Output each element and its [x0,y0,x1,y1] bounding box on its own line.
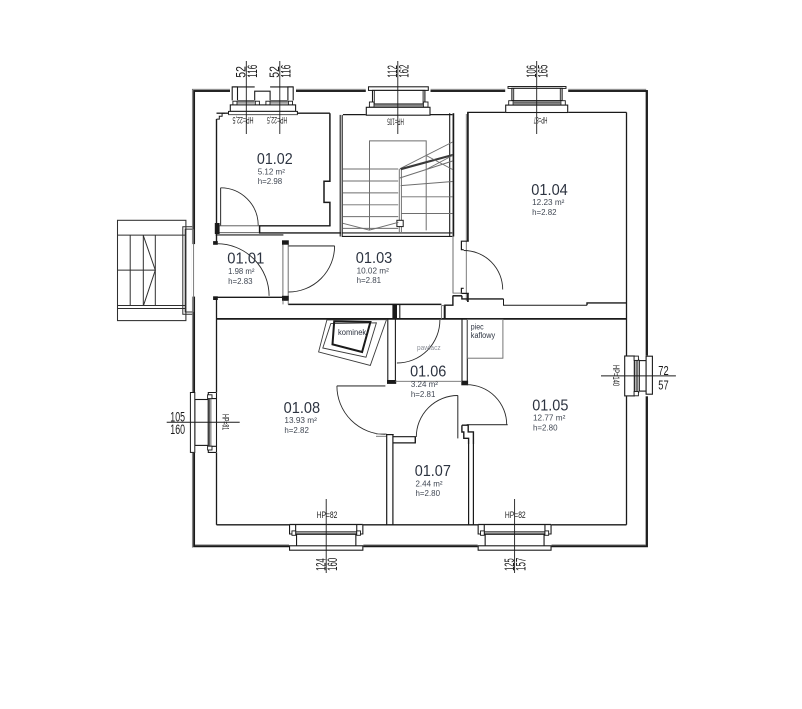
svg-text:01.08: 01.08 [284,400,321,417]
svg-text:160: 160 [325,558,340,571]
svg-text:HP=22,5: HP=22,5 [267,115,287,125]
svg-text:HP=82: HP=82 [317,510,338,520]
wall jamb slot right of 01.06 door [440,306,442,319]
svg-text:116: 116 [245,65,260,78]
svg-text:01.04: 01.04 [531,182,568,199]
door entry frame slot [193,229,195,312]
svg-text:01.02: 01.02 [257,151,293,168]
window W6 105/160 left wall [190,392,217,453]
wall 01.07 east top jamb [462,425,474,444]
svg-text:13.93 m²: 13.93 m² [284,416,317,425]
dimension 112/162 window2 [397,61,399,134]
wall jamb caps entry door [214,242,218,245]
svg-text:h=2.98: h=2.98 [258,177,283,186]
door D-01.05 swing [467,385,507,425]
wall bottom inner face [217,524,290,526]
wall stairwell right [449,113,451,236]
wall partition stubs below 01.01/01.03 door [282,300,284,304]
door D-01.05 leaf [467,424,508,426]
wall stairwell south [342,232,453,234]
svg-text:12.77 m²: 12.77 m² [533,414,566,423]
wall 01.04 west [467,112,469,241]
svg-text:pawlacz: pawlacz [417,343,441,352]
door D-01.07 swing [416,396,458,438]
wire outer thin contour [192,89,646,547]
wall chimney block between 01.02 and stairwell [324,113,330,226]
stair winder treads [400,142,453,169]
stair treads right flight [401,196,452,198]
svg-text:h=2.82: h=2.82 [284,426,309,435]
svg-text:01.06: 01.06 [410,364,446,381]
svg-text:h=2.80: h=2.80 [533,423,558,432]
wall 01.03 east partition [452,237,454,294]
door D-01.08 swing [337,386,386,435]
wall right inner face [626,112,628,356]
wall corner chamfer 01.02 top-left [217,113,225,119]
stair newel rail [398,169,400,232]
door D-01.01 swing [217,244,269,296]
door D-01.08 leaf [337,385,386,387]
svg-text:kaflowy: kaflowy [471,331,495,340]
door D-01.03 swing [289,246,335,292]
pawlacz south edge [395,380,462,382]
svg-text:h=2.81: h=2.81 [411,390,436,399]
svg-text:3.24 m²: 3.24 m² [411,380,438,389]
external stair [118,220,186,320]
svg-text:01.05: 01.05 [532,397,568,414]
svg-text:165: 165 [536,65,551,78]
svg-text:5.12 m²: 5.12 m² [258,167,285,176]
kominek middle [323,323,377,357]
kominek firebox [333,321,371,352]
door D-01.03 leaf [289,245,335,247]
svg-text:162: 162 [397,65,412,78]
wall jamb caps 01.01/01.03 door [282,241,288,245]
svg-text:01.01: 01.01 [227,251,264,268]
wall 01.06 east [461,319,463,381]
wall band bottom line [217,318,628,320]
wall 01.04/01.05 middle segment [504,299,588,305]
svg-text:57: 57 [658,378,668,393]
svg-text:157: 157 [513,558,528,571]
svg-text:72: 72 [658,363,668,378]
door D-01.07 leaf [457,395,459,438]
window W1 double 52+52/116 [232,87,237,101]
dimension 72/57 window7 [601,375,676,377]
svg-text:1.98 m²: 1.98 m² [228,267,255,276]
wall left inner face [216,119,218,244]
wall 01.01 south edge [217,296,284,298]
stair newel post [397,220,403,226]
wall 01.02 south [259,225,331,227]
wall partition 01.01/01.03 [282,244,284,296]
window W4 124/160 [289,525,363,550]
wall 01.03 south top line [288,303,441,305]
svg-text:12.23 m²: 12.23 m² [532,198,565,207]
wall corridor south frame [453,292,462,294]
svg-text:HP=140: HP=140 [611,365,621,386]
wall 01.07 north-left segment [393,437,415,443]
wall jamb block 01.06 door [393,304,397,319]
svg-text:h=2.80: h=2.80 [416,489,441,498]
window W7 72/57 right wall [624,356,653,397]
wall top inner face [217,112,229,114]
wall 01.07 west [386,435,388,525]
door D-01.02 leaf [220,188,222,226]
dimension 52/116 window1a [245,61,247,134]
svg-text:h=2.83: h=2.83 [228,277,253,286]
dimension 124/160 window4 [325,499,327,573]
door D-01.02 swing [221,188,259,226]
svg-text:160: 160 [170,422,185,437]
stair walk-line arrow [343,222,399,230]
stair treads left flight [343,168,398,170]
wall stairwell left [339,115,341,237]
svg-text:10.02 m²: 10.02 m² [357,266,389,275]
wall 01.04/01.05 right segment [587,303,627,305]
door entry opening white [192,244,217,297]
svg-text:HP=81: HP=81 [221,414,231,430]
svg-text:2.44 m²: 2.44 m² [416,479,443,488]
dimension 105/160 window6 [167,421,240,423]
svg-text:kominek: kominek [338,328,366,337]
stair cross brace [426,156,452,170]
window W3 106/165 [505,86,568,113]
window W2 112/162 [366,86,431,115]
dimension 125/157 window5 [514,499,516,573]
wall exterior main outline [194,91,647,546]
piec kaflowy box [467,319,503,358]
door D-01.08 threshold ticks [376,433,387,435]
dimension 52/116 window1b [279,61,281,134]
door D-01.06 swing [397,320,440,363]
svg-text:01.07: 01.07 [415,463,451,480]
stair floor-opening outline [370,141,427,231]
svg-text:116: 116 [279,65,294,78]
dimension 106/165 window3 [536,61,538,134]
window W1 double 52+52/116 white base [230,84,296,115]
door D-01.04 swing [464,251,503,290]
svg-text:HP=22,5: HP=22,5 [232,115,253,125]
svg-text:h=2.82: h=2.82 [532,208,557,217]
svg-text:HP=105: HP=105 [387,117,404,127]
wall jamb 01.04 door top [461,241,468,250]
svg-text:01.03: 01.03 [356,250,393,267]
wall jamb 01.04 door bottom [461,288,468,293]
kominek outer [319,320,387,366]
svg-text:HP=82: HP=82 [505,510,526,520]
wall 01.07 east [468,444,470,525]
svg-text:HP=87: HP=87 [534,115,548,125]
wall 01.06 west [387,319,389,381]
wall jamb block 01.02 door [215,223,219,233]
window W5 125/157 [478,525,552,550]
svg-text:h=2.81: h=2.81 [357,276,382,285]
